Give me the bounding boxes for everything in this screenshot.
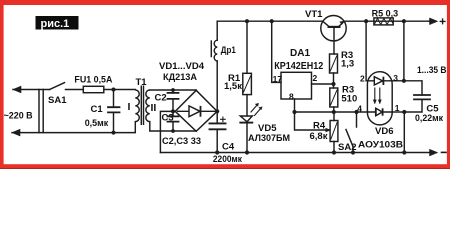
capacitor C4 — [216, 111, 218, 152]
LED VD5 — [240, 116, 252, 122]
red frame — [0, 0, 450, 169]
wire: pin4 line — [334, 111, 368, 113]
svg-text:1: 1 — [395, 103, 400, 113]
resistor R1 — [243, 73, 252, 94]
capacitor C2 — [172, 90, 174, 111]
transformer T1 — [135, 86, 150, 133]
svg-text:3: 3 — [393, 73, 398, 83]
wire: R1 to VD5 — [246, 95, 248, 116]
node C1 top — [112, 88, 116, 92]
T1 core — [141, 86, 143, 126]
wire: VD5 to rail — [246, 123, 248, 153]
node DC minus — [171, 109, 175, 113]
T1 primary winding — [135, 90, 139, 133]
input arrow top — [13, 86, 21, 93]
resistor R5 — [374, 18, 393, 25]
wire: top AC input — [13, 89, 50, 91]
photothyristor inside — [367, 111, 392, 113]
wire: pin 8 to R3/R4 junction — [295, 111, 334, 113]
svg-text:2: 2 — [360, 74, 365, 84]
wire: DC minus rail — [160, 152, 429, 154]
wire: bottom AC input — [12, 132, 135, 134]
node SA2 top — [354, 110, 358, 114]
svg-text:~220 В: ~220 В — [4, 111, 33, 122]
svg-text:C3: C3 — [162, 113, 174, 124]
svg-text:C2,C3 33: C2,C3 33 — [162, 136, 201, 147]
wire: FU1 to T1 primary — [104, 89, 136, 91]
node SA2 bottom — [351, 150, 355, 154]
svg-text:1...35 В: 1...35 В — [417, 65, 447, 76]
fuse FU1 — [83, 86, 104, 92]
svg-text:0,5мк: 0,5мк — [85, 118, 109, 128]
svg-text:КР142ЕН12: КР142ЕН12 — [274, 61, 323, 72]
wire: choke to top rail — [216, 21, 218, 40]
node pin1 — [402, 110, 406, 114]
svg-text:SA1: SA1 — [48, 95, 67, 106]
node R3/R4 — [332, 110, 336, 114]
optocoupler VD6 — [367, 72, 392, 125]
switch SA1 blade — [50, 83, 65, 90]
svg-text:6,8к: 6,8к — [310, 131, 328, 142]
node C3 bottom — [171, 129, 175, 133]
svg-text:КД213А: КД213А — [163, 72, 197, 83]
svg-text:C1: C1 — [91, 104, 104, 115]
svg-text:I: I — [128, 101, 131, 113]
svg-text:рис.1: рис.1 — [41, 18, 70, 30]
wire: SA2 to rail — [352, 147, 354, 153]
node R5 right — [402, 19, 406, 23]
output arrow minus — [430, 149, 438, 156]
output arrow plus — [429, 20, 430, 22]
plug symbol verticals — [39, 90, 43, 133]
plus mark C4 — [221, 117, 226, 122]
capacitor C1 — [113, 90, 115, 133]
plus output mark — [440, 19, 445, 24]
node VD5 bottom — [245, 150, 249, 154]
wire: pin1 node to rail — [403, 112, 405, 153]
node bridge plus — [215, 109, 219, 113]
wire: top rail left — [217, 20, 323, 22]
switch SA2 — [346, 110, 359, 155]
svg-text:1,5к: 1,5к — [224, 81, 242, 92]
wire: pin 2 — [312, 83, 334, 85]
node pin17 top — [270, 19, 274, 23]
VT1 body circle — [321, 16, 346, 41]
R2/R3/R4 chain — [330, 54, 368, 155]
svg-text:АЛ307БМ: АЛ307БМ — [248, 133, 290, 144]
svg-text:T1: T1 — [136, 77, 148, 88]
svg-text:VD1...VD4: VD1...VD4 — [159, 61, 205, 72]
bridge diamond — [175, 90, 217, 131]
wire: rail to pin 17 — [272, 21, 281, 82]
svg-text:R5 0,3: R5 0,3 — [372, 9, 399, 20]
DA1 box — [281, 72, 312, 99]
svg-text:DA1: DA1 — [290, 48, 310, 59]
T1 secondary winding — [146, 90, 150, 131]
svg-text:Др1: Др1 — [221, 45, 237, 56]
wire: VT1 base down — [333, 27, 335, 54]
svg-text:0,22мк: 0,22мк — [415, 113, 443, 123]
wire: rail to pin 2 — [366, 21, 367, 81]
wire: SA1 to FU1 — [66, 89, 84, 91]
VT1 base bar — [328, 26, 341, 28]
svg-text:C4: C4 — [222, 142, 235, 153]
capacitor C3 — [172, 111, 174, 131]
bridge rectifier VD1...VD4 — [175, 90, 217, 131]
node pin3 — [402, 79, 406, 83]
wire: pin 1 — [392, 111, 404, 113]
wire: SA2 fixed contact — [356, 112, 358, 127]
DA1 regulator — [270, 19, 336, 132]
wire: pin 8 and wiper to R4 — [295, 99, 329, 130]
svg-text:VD6: VD6 — [375, 126, 393, 137]
svg-text:C2: C2 — [155, 93, 167, 104]
resistor R3 upper (1,3) — [330, 54, 338, 73]
figure label рис.1 — [36, 16, 79, 30]
capacitor C5 — [404, 81, 422, 95]
svg-text:II: II — [151, 102, 157, 114]
wire: secondary top to bridge — [150, 89, 196, 91]
node R4 bottom — [332, 150, 336, 154]
svg-text:17: 17 — [273, 74, 283, 84]
resistor R3 lower (510) — [330, 88, 338, 107]
light arrows down — [375, 88, 380, 102]
R1 / VD5 branch — [240, 19, 262, 154]
resistor R4 — [330, 121, 338, 142]
node C2 top — [171, 88, 175, 92]
wire: bridge diode leads — [177, 110, 217, 112]
bridge diode symbol — [189, 106, 200, 117]
svg-text:2: 2 — [313, 73, 318, 83]
node R1 top — [245, 19, 249, 23]
wire: DC minus tap — [160, 111, 175, 152]
node pin8/line — [292, 110, 296, 114]
transistor VT1 — [321, 16, 429, 55]
svg-text:VT1: VT1 — [305, 9, 323, 20]
node pin2 — [331, 82, 335, 86]
wire: top rail right — [344, 20, 429, 22]
svg-text:8: 8 — [289, 92, 294, 102]
wire: rail to R1 — [246, 21, 248, 73]
VT1 collector and emitter leads — [323, 21, 344, 26]
LED inside — [367, 80, 392, 82]
svg-text:510: 510 — [341, 93, 357, 104]
svg-text:2200мк: 2200мк — [213, 154, 242, 165]
svg-text:АОУ103В: АОУ103В — [358, 140, 403, 151]
choke Dr1 — [214, 40, 217, 61]
svg-text:FU1 0,5A: FU1 0,5A — [74, 74, 112, 85]
svg-text:4: 4 — [357, 104, 362, 114]
SA2 blade — [346, 130, 353, 147]
node C4 bottom — [215, 150, 219, 154]
node C1 bottom — [112, 131, 116, 135]
wire: secondary bottom to bridge — [150, 130, 196, 132]
svg-text:R4: R4 — [313, 121, 326, 132]
svg-text:1,3: 1,3 — [341, 58, 354, 69]
svg-text:SA2: SA2 — [338, 142, 356, 153]
input arrow bottom — [12, 129, 20, 136]
wire: rail to pin 3 — [392, 21, 404, 81]
wire: bridge to choke — [216, 61, 218, 111]
node pin2 rail — [364, 19, 368, 23]
